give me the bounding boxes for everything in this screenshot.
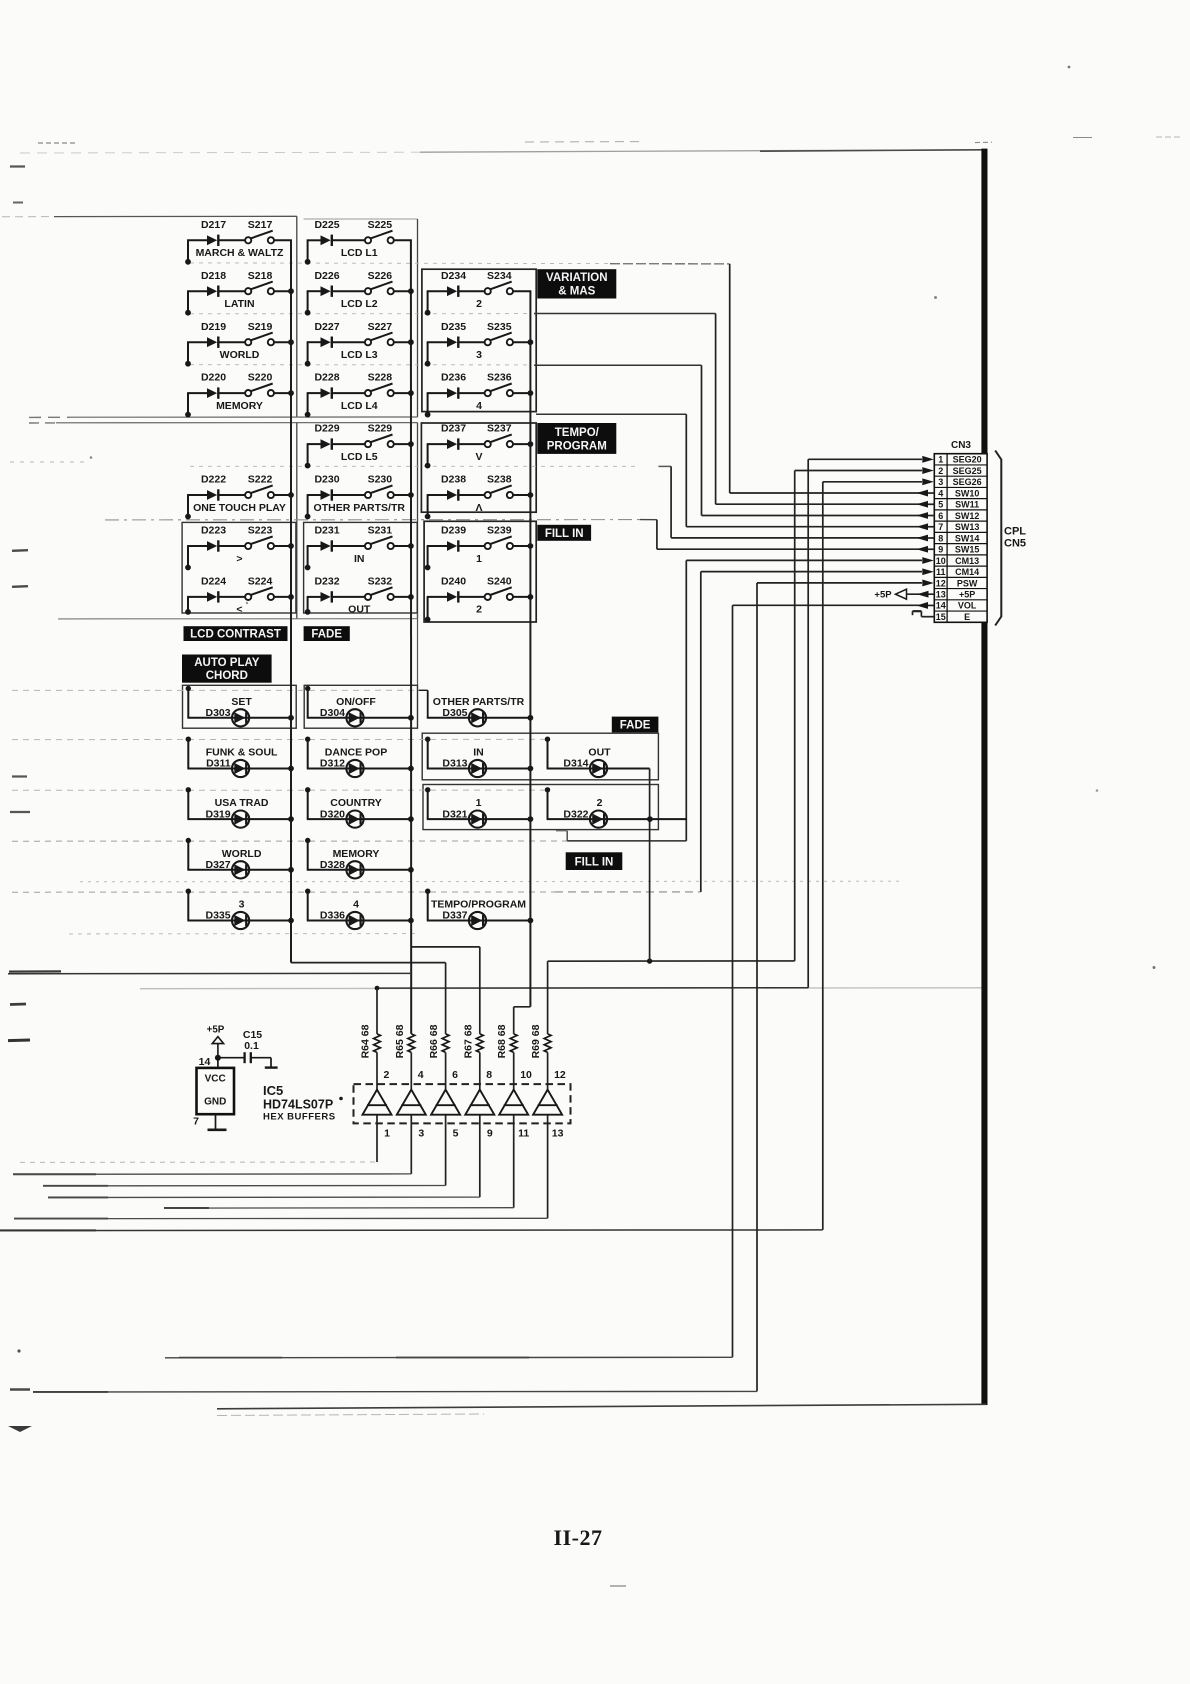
junction [528,715,534,721]
switch S218 [219,270,292,295]
svg-text:LCD L4: LCD L4 [341,400,378,412]
switch S232 [333,576,412,601]
svg-text:4: 4 [476,400,482,412]
svg-text:+5P: +5P [874,590,892,601]
svg-text:LATIN: LATIN [224,298,254,310]
svg-text:2: 2 [597,797,603,809]
junction [408,441,414,447]
svg-text:D223: D223 [201,525,226,537]
svg-text:D311: D311 [206,758,231,770]
pin 12 arrow (in) [922,580,934,587]
svg-text:D314: D314 [563,758,588,770]
svg-text:SW15: SW15 [955,545,980,555]
svg-text:+5P: +5P [959,590,975,600]
resistor R64 68 [360,1024,381,1089]
svg-text:4: 4 [418,1069,424,1081]
junction [408,543,414,549]
LED D321 (1) [425,787,531,828]
svg-text:S234: S234 [487,270,512,282]
wire SW15 to CN3 pin 9 [656,520,658,550]
diode D224 [187,576,226,603]
svg-text:S238: S238 [487,474,512,486]
junction [288,766,294,772]
junction [408,594,414,600]
ground (common of S239) [425,546,431,570]
LED D337 (TEMPO/PROGRAM) [425,889,531,930]
LED D320 (COUNTRY) [305,787,412,828]
wire buffer 3 output [445,1115,447,1186]
junction [408,766,414,772]
svg-text:>: > [236,553,242,565]
wire SW11 net (row 2 commons) [190,313,530,315]
label FADE (LED group) [612,717,659,733]
svg-text:VOL: VOL [958,601,977,611]
pin 11 arrow (in) [922,568,934,575]
wire SW11 to CN3 pin 5 [715,314,717,505]
svg-text:D335: D335 [205,910,230,922]
switch S237 [459,423,531,448]
wire R69 top [547,961,549,1034]
svg-text:D238: D238 [441,474,466,486]
junction [528,766,534,772]
svg-text:LCD L3: LCD L3 [341,349,378,361]
svg-text:12: 12 [554,1069,566,1081]
wire CM14 net [12,891,555,893]
svg-text:FILL IN: FILL IN [575,856,614,868]
svg-text:CPL: CPL [1004,526,1026,538]
diode D218 [187,270,226,297]
junction [288,543,294,549]
svg-text:USA TRAD: USA TRAD [215,797,269,809]
svg-text:2: 2 [476,298,482,310]
ground (IC5 pin 7) [208,1114,227,1130]
svg-text:R67 68: R67 68 [462,1024,474,1058]
LED D336 (4) [305,889,412,930]
ground (common of S237) [425,444,431,468]
ground (common of S220) [185,393,191,417]
pin 6 arrow (out) [917,512,935,519]
svg-text:D222: D222 [201,474,226,486]
svg-text:OUT: OUT [588,747,611,759]
switch S238 [459,474,531,499]
LED D303 (SET) [186,686,292,727]
svg-text:CN5: CN5 [1004,538,1026,550]
svg-text:S229: S229 [368,423,393,435]
IC5 power block VCC/GND [197,1058,235,1115]
svg-text:CHORD: CHORD [206,670,248,682]
svg-text:E: E [964,612,970,622]
svg-text:D217: D217 [201,219,226,231]
svg-text:15: 15 [936,612,946,622]
junction [408,816,414,822]
wire CM row (SET commons) [12,689,419,691]
svg-text:D304: D304 [320,707,345,719]
svg-text:D321: D321 [442,808,467,820]
LED D327 (WORLD) [186,838,292,879]
pin 7 arrow (out) [917,523,935,530]
svg-text:SW10: SW10 [955,488,980,498]
switch S227 [333,321,412,346]
diode D228 [307,372,340,399]
svg-text:3: 3 [938,477,943,487]
junction [408,288,414,294]
svg-text:D240: D240 [441,576,466,588]
svg-text:S223: S223 [248,525,273,537]
switch S231 [333,525,412,550]
label LCD CONTRAST [184,626,288,641]
diode D219 [187,321,226,348]
svg-text:D239: D239 [441,525,466,537]
svg-text:D235: D235 [441,321,466,333]
svg-text:S226: S226 [368,270,393,282]
svg-text:9: 9 [938,545,943,555]
svg-text:& MAS: & MAS [558,286,595,298]
wire CM14: CN3 pin 11 [701,571,922,573]
switch S230 [333,474,412,499]
svg-text:6: 6 [938,511,943,521]
LED D314 (OUT) [545,737,650,778]
wire buffer 5 output [513,1115,515,1208]
diode D223 [187,525,226,552]
svg-text:S225: S225 [368,219,393,231]
wire SW10 to CN3 pin 4 [729,264,731,493]
svg-text:VARIATION: VARIATION [546,272,608,284]
svg-text:+5P: +5P [207,1025,225,1036]
svg-text:D231: D231 [314,525,339,537]
svg-text:R65 68: R65 68 [394,1024,406,1058]
ground (common of S222) [185,495,191,519]
svg-text:1: 1 [476,553,482,565]
diode D235 [427,321,467,348]
ground (common of S229) [305,444,311,468]
junction [288,492,294,498]
svg-text:D226: D226 [314,270,339,282]
junction [528,918,534,924]
svg-text:COUNTRY: COUNTRY [330,797,382,809]
wire R64 top [376,988,378,1034]
junction [528,339,534,345]
svg-text:D327: D327 [205,859,230,871]
svg-text:8: 8 [486,1069,492,1081]
diode D232 [307,576,340,603]
switch S234 [459,270,531,295]
ground (common of S238) [425,495,431,519]
svg-text:WORLD: WORLD [222,848,262,860]
LED D305 (OTHER PARTS/TR) [419,690,532,726]
svg-text:OUT: OUT [348,604,371,616]
svg-text:SW11: SW11 [955,500,979,510]
svg-text:1: 1 [476,797,482,809]
junction [647,816,653,822]
svg-text:CM13: CM13 [955,556,979,566]
pin 3 arrow (in) [922,478,934,485]
svg-text:R64 68: R64 68 [360,1024,372,1058]
svg-text:PSW: PSW [957,578,978,588]
svg-text:<: < [236,604,242,616]
svg-text:D230: D230 [314,474,339,486]
diode D236 [427,372,467,399]
svg-text:D227: D227 [314,321,339,333]
ground (CN3 pin 15 E) [913,611,935,617]
label AUTO PLAY CHORD [182,655,272,683]
svg-text:11: 11 [936,567,946,577]
resistor R69 68 [530,1024,551,1089]
svg-text:FADE: FADE [620,720,651,732]
junction [408,918,414,924]
svg-text:D237: D237 [441,423,466,435]
switch S236 [459,372,531,397]
label FILL IN [537,525,591,541]
svg-text:GND: GND [204,1097,226,1108]
diode D240 [427,576,467,603]
LED D304 (ON/OFF) [305,686,412,727]
svg-text:CM14: CM14 [955,567,979,577]
svg-text:ON/OFF: ON/OFF [336,696,376,708]
ground (common of S228) [305,393,311,417]
svg-text:D232: D232 [314,576,339,588]
svg-text:S239: S239 [487,525,512,537]
svg-text:SW12: SW12 [955,511,980,521]
wire bus column 1 [290,240,292,962]
switch S225 [333,219,412,244]
wire D314/D322 column to SEG25 net [649,769,651,962]
label TEMPO/PROGRAM [537,423,616,454]
svg-text:6: 6 [452,1069,458,1081]
svg-text:VCC: VCC [205,1074,226,1085]
svg-text:D234: D234 [441,270,466,282]
svg-text:D225: D225 [314,219,339,231]
junction [408,492,414,498]
svg-text:3: 3 [476,349,482,361]
svg-text:SEG26: SEG26 [953,477,982,487]
wire CM row3 [12,789,548,791]
svg-text:D236: D236 [441,372,466,384]
svg-text:Λ: Λ [475,502,482,514]
junction [528,543,534,549]
wire SW12 to CN3 pin 6 [701,365,703,515]
junction [288,918,294,924]
wire SW13 net (row 4 commons) [536,413,686,415]
switch S226 [333,270,412,295]
svg-text:S237: S237 [487,423,512,435]
wire bus column 3 [529,291,531,1007]
svg-text:LCD L1: LCD L1 [341,247,378,259]
svg-text:0.1: 0.1 [244,1040,259,1052]
junction R64 top [375,986,380,991]
diode D220 [187,372,226,399]
ground (common of S217) [185,240,191,264]
junction [647,958,652,963]
diode D229 [307,423,340,450]
switch S223 [219,525,292,550]
svg-text:1: 1 [384,1128,390,1140]
wire PSW: CN3 pin 12 [757,582,922,584]
svg-text:S217: S217 [248,219,273,231]
svg-text:9: 9 [487,1128,493,1140]
svg-text:13: 13 [936,590,946,600]
svg-text:D328: D328 [320,859,345,871]
svg-text:SEG25: SEG25 [953,466,982,476]
wire buffer 2 output [410,1115,412,1174]
node pin14 junction [215,1055,221,1061]
svg-text:OTHER PARTS/TR: OTHER PARTS/TR [433,696,525,708]
wire buffer 6 output [547,1115,549,1219]
junction [528,441,534,447]
diode D239 [427,525,467,552]
svg-text:10: 10 [520,1069,532,1081]
switch S219 [219,321,292,346]
svg-text:S228: S228 [368,372,393,384]
LED D335 (3) [186,889,292,930]
svg-text:MEMORY: MEMORY [216,400,263,412]
svg-text:D218: D218 [201,270,226,282]
svg-text:LCD L2: LCD L2 [341,298,378,310]
svg-text:LCD CONTRAST: LCD CONTRAST [190,629,281,641]
label VARIATION & MAS [537,269,616,298]
ground (common of S235) [425,342,431,366]
junction [288,288,294,294]
junction [528,492,534,498]
svg-text:S236: S236 [487,372,512,384]
switch S239 [459,525,531,550]
diode D231 [307,525,340,552]
svg-text:S231: S231 [368,525,393,537]
wire SEG26: CN3 pin 3 down [823,481,922,483]
svg-text:R68 68: R68 68 [496,1024,508,1058]
svg-text:IN: IN [473,747,484,759]
diode D227 [307,321,340,348]
junction [288,867,294,873]
svg-text:S240: S240 [487,576,512,588]
wire SW10 net (row 1 commons) [190,262,610,265]
junction [408,390,414,396]
svg-text:D305: D305 [442,707,467,719]
svg-text:TEMPO/PROGRAM: TEMPO/PROGRAM [431,899,526,911]
wire CM row2 [12,738,548,740]
label FADE [304,626,350,641]
svg-text:AUTO PLAY: AUTO PLAY [194,657,260,669]
svg-text:WORLD: WORLD [220,349,260,361]
diode D234 [427,270,467,297]
junction [288,390,294,396]
LED D319 (USA TRAD) [186,787,292,828]
ground (common of S232) [305,597,311,615]
svg-text:R69 68: R69 68 [530,1024,542,1058]
svg-text:4: 4 [353,899,359,911]
ground (common of S234) [425,291,431,315]
svg-text:S220: S220 [248,372,273,384]
svg-text:8: 8 [938,533,943,543]
label FILL IN (LED group) [566,852,623,870]
svg-text:14: 14 [199,1056,211,1068]
svg-text:D313: D313 [442,758,467,770]
wire SW14 net (row 5 commons) [190,465,640,467]
svg-text:12: 12 [936,578,946,588]
svg-text:LCD L5: LCD L5 [341,451,378,463]
svg-text:D228: D228 [314,372,339,384]
ground (common of S230) [305,495,311,519]
capacitor C15 0.1 [218,1029,278,1068]
svg-text:V: V [475,451,482,463]
LED D312 (DANCE POP) [305,737,412,778]
svg-text:ONE TOUCH PLAY: ONE TOUCH PLAY [193,502,286,514]
wire SEG25: CN3 pin 2 to R69 [795,470,922,472]
svg-text:D219: D219 [201,321,226,333]
ground (common of S224) [185,597,191,615]
switch S235 [459,321,531,346]
svg-text:S232: S232 [368,576,393,588]
wire buffer 4 output [479,1115,481,1197]
resistor R67 68 [462,1024,483,1089]
LED D328 (MEMORY) [305,838,412,879]
svg-text:II-27: II-27 [554,1525,603,1550]
wire VOL: CN3 pin 14 [733,604,923,606]
wire CM13 net [12,840,567,842]
svg-text:D337: D337 [442,910,467,922]
junction [408,339,414,345]
ground (common of S227) [305,342,311,366]
svg-text:SW13: SW13 [955,522,980,532]
svg-text:MEMORY: MEMORY [333,848,380,860]
svg-text:D322: D322 [563,808,588,820]
ground (common of S219) [185,342,191,366]
svg-text:CN3: CN3 [951,440,971,451]
pin 1 arrow (in) [922,456,934,463]
diode D217 [187,219,226,246]
ground (common of S231) [305,546,311,570]
svg-text:2: 2 [938,466,943,476]
diode D237 [427,423,467,450]
ground (common of S236) [425,393,431,417]
pin 14 arrow (out) [917,602,935,609]
pin 5 arrow (out) [917,501,935,508]
svg-text:TEMPO/: TEMPO/ [555,427,600,439]
power +5P (CN3 pin 13) [874,589,934,601]
svg-text:S224: S224 [248,576,273,588]
switch S240 [459,576,531,601]
resistor R68 68 [496,1024,517,1089]
svg-text:S235: S235 [487,321,512,333]
ground (common of S223) [185,546,191,570]
svg-text:SET: SET [231,696,252,708]
junction [408,867,414,873]
wire SW14 to CN3 pin 8 [670,466,672,538]
switch S222 [219,474,292,499]
connector CN3 [934,454,987,623]
svg-text:S222: S222 [248,474,273,486]
svg-text:D224: D224 [201,576,226,588]
svg-text:S230: S230 [368,474,393,486]
pin 2 arrow (in) [922,467,934,474]
svg-text:OTHER PARTS/TR: OTHER PARTS/TR [314,502,406,514]
diode D226 [307,270,340,297]
diode D225 [307,219,340,246]
junction [288,339,294,345]
svg-text:11: 11 [518,1128,529,1140]
switch S224 [219,576,292,601]
wire SW12 net (row 3 commons) [190,364,530,366]
switch S228 [333,372,412,397]
svg-text:IC5: IC5 [263,1083,283,1098]
svg-text:S227: S227 [368,321,393,333]
svg-text:DANCE POP: DANCE POP [325,747,387,759]
svg-text:1: 1 [938,455,943,465]
junction [288,715,294,721]
svg-text:5: 5 [453,1128,459,1140]
wire SW15 net (row 6 commons) [105,519,640,521]
junction [288,816,294,822]
pin 10 arrow (in) [922,557,934,564]
